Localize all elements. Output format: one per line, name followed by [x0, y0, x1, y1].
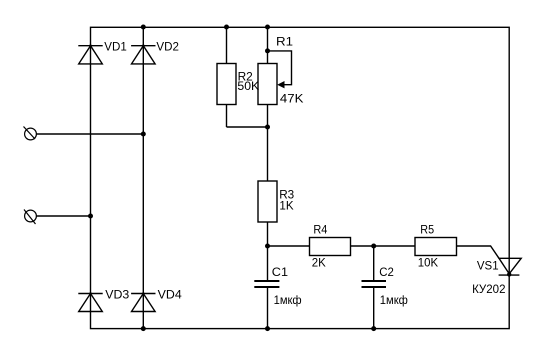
svg-text:VD2: VD2 [156, 40, 179, 54]
svg-text:КУ202: КУ202 [472, 282, 506, 296]
svg-text:C1: C1 [272, 265, 289, 279]
svg-text:R4: R4 [313, 223, 327, 237]
svg-text:1мкф: 1мкф [274, 293, 302, 307]
svg-text:VD4: VD4 [158, 287, 182, 301]
svg-text:C2: C2 [379, 265, 394, 279]
svg-text:1мкф: 1мкф [380, 293, 408, 307]
svg-text:1K: 1K [279, 199, 293, 213]
svg-text:R1: R1 [276, 34, 293, 48]
svg-text:50K: 50K [237, 79, 259, 93]
svg-text:VD1: VD1 [104, 40, 127, 54]
svg-text:R5: R5 [420, 223, 434, 237]
svg-text:2K: 2K [312, 255, 326, 269]
svg-text:10K: 10K [418, 256, 438, 270]
svg-text:VS1: VS1 [477, 259, 499, 273]
svg-text:47K: 47K [280, 92, 304, 106]
svg-text:VD3: VD3 [105, 287, 129, 301]
